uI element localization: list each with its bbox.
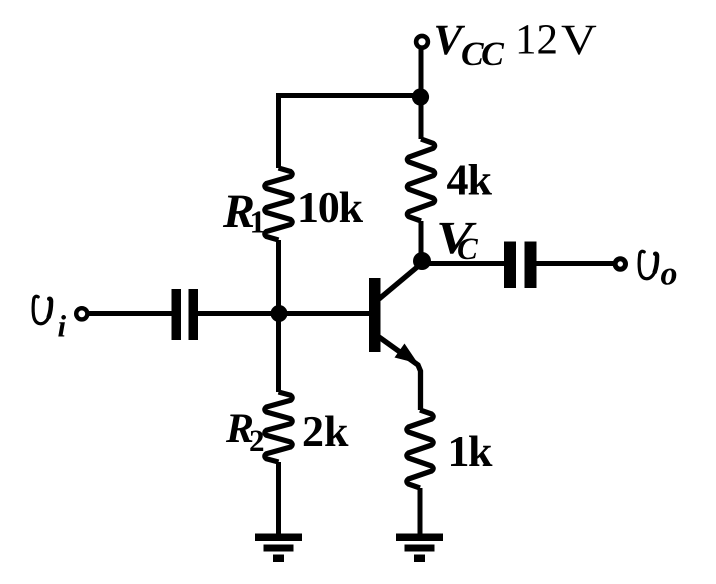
label 1k value xyxy=(451,436,492,467)
capacitor C2 plate right xyxy=(525,242,537,289)
label VC V xyxy=(439,223,476,254)
label VC subscript C xyxy=(458,239,478,260)
transistor Q1 emitter lead xyxy=(379,337,421,410)
ground right bar2 xyxy=(405,545,435,552)
label Vcc V xyxy=(436,26,465,55)
node base xyxy=(271,305,288,322)
terminal Vcc xyxy=(416,36,428,48)
wire vi to capacitor C1 xyxy=(88,311,172,316)
transistor Q1 emitter arrow xyxy=(395,344,419,364)
wire left column top xyxy=(276,93,281,168)
transistor Q1 collector lead xyxy=(379,263,422,299)
wire capacitor C1 to base xyxy=(198,311,370,316)
wire 1k to ground xyxy=(418,488,423,534)
ground left bar1 xyxy=(255,534,302,542)
label R1 subscript 1 xyxy=(252,211,264,232)
label R2 R xyxy=(226,415,253,443)
label R1 R xyxy=(223,196,253,227)
wire Vcc junction to 4k xyxy=(419,97,424,139)
resistor R1 xyxy=(265,168,292,240)
resistor RE 1k xyxy=(407,410,433,488)
label vo subscript o xyxy=(661,269,676,285)
label 2k value xyxy=(304,416,349,447)
label R2 subscript 2 xyxy=(250,431,263,452)
wire R2 to ground xyxy=(276,462,281,534)
label vi subscript i xyxy=(58,315,66,337)
label V of 12V xyxy=(562,26,597,55)
label vo upsilon xyxy=(639,251,657,278)
transistor Q1 base bar xyxy=(369,278,381,352)
wire capacitor C2 to vo xyxy=(537,261,616,266)
label vi upsilon xyxy=(33,296,51,323)
wire collector node to capacitor C2 xyxy=(420,261,504,266)
capacitor C2 plate left xyxy=(504,242,516,289)
resistor R2 xyxy=(265,392,292,462)
capacitor C1 plate left xyxy=(172,289,182,340)
ground left bar3 xyxy=(273,555,284,563)
terminal vi xyxy=(76,308,87,319)
wire top horizontal xyxy=(276,93,420,98)
wire 4k to collector node xyxy=(419,221,424,262)
capacitor C1 plate right xyxy=(189,289,199,340)
terminal vo xyxy=(615,259,625,269)
resistor 4k xyxy=(407,139,434,221)
label 12 xyxy=(519,25,556,54)
node junction Vcc top wire xyxy=(412,88,429,105)
ground right bar3 xyxy=(414,555,425,563)
label 10k value xyxy=(301,192,364,223)
ground right bar1 xyxy=(396,534,443,542)
label Vcc CC subscript xyxy=(462,43,504,66)
label 4k value xyxy=(447,164,492,195)
node collector VC xyxy=(413,252,431,270)
wire Vcc down to junction xyxy=(419,48,424,96)
ground left bar2 xyxy=(264,545,294,552)
wire R1 to base node to R2 xyxy=(276,240,281,392)
